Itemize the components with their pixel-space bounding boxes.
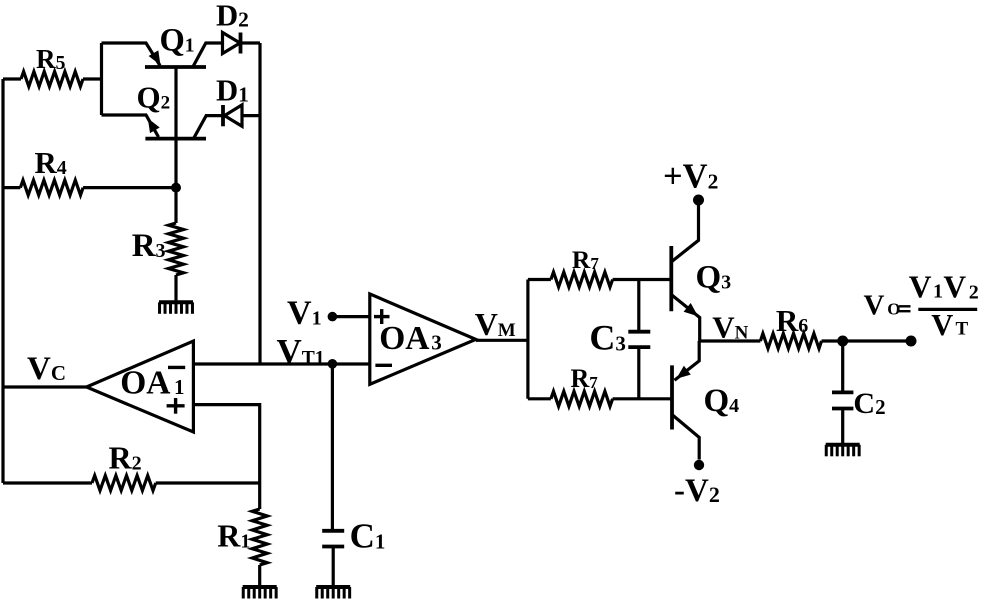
op-amp OA1 plus sign [167, 404, 185, 407]
transistor Q3 base bar [669, 246, 673, 311]
resistor R2 [3, 481, 92, 484]
transistor Q3 emitter arrow [684, 303, 698, 316]
ground below R1 [243, 585, 277, 589]
resistor R5 [3, 77, 21, 80]
ground below C2 [826, 443, 860, 447]
transistor Q2 base bar [145, 137, 206, 141]
svg-text:T: T [956, 319, 969, 340]
transistor Q4 emitter [675, 341, 700, 380]
wire C2 to ground [841, 409, 844, 445]
capacitor C3 [628, 330, 650, 334]
wire OA1 plus input [193, 405, 259, 483]
transistor Q2 collector [194, 116, 224, 139]
diode D1 triangle [225, 105, 243, 126]
wire C1 to ground [332, 547, 335, 588]
wire V1 to OA3 [332, 315, 369, 318]
wire D2 to rail [241, 41, 261, 44]
transistor Q1 collector [193, 43, 223, 67]
capacitor C1 [322, 529, 344, 533]
wire C3 bottom stub [637, 347, 640, 399]
svg-text:2: 2 [969, 281, 979, 303]
wire base bus [174, 67, 177, 188]
diode D2 cathode bar [239, 33, 243, 54]
op-amp OA3 minus sign [375, 364, 392, 367]
svg-text:1: 1 [174, 375, 185, 399]
svg-text:1: 1 [933, 280, 943, 302]
resistor R6 [760, 334, 821, 349]
resistor R1 [258, 483, 261, 509]
svg-text:O: O [887, 300, 900, 319]
ground below C1 [316, 585, 350, 589]
terminal V1 [328, 312, 338, 322]
svg-text:OA: OA [379, 320, 429, 357]
wire D1 to rail [242, 114, 260, 117]
op-amp OA3 [370, 294, 476, 384]
wire C2 stub [841, 341, 844, 392]
svg-text:V: V [864, 290, 885, 322]
node R4-R3 junction [171, 183, 181, 193]
resistor R4 [3, 186, 20, 189]
wire left rail [1, 79, 4, 483]
wire splitter bracket [526, 280, 529, 399]
wire VM [476, 339, 528, 342]
op-amp OA1 minus sign [168, 366, 185, 369]
terminal -V2 [694, 460, 704, 470]
svg-text:V: V [931, 308, 953, 342]
wire VT1 to C1 [331, 364, 334, 531]
node C2 junction [837, 336, 848, 347]
wire right rail [258, 43, 261, 364]
transistor Q1 emitter [102, 43, 161, 66]
terminal +V2 [693, 195, 704, 206]
wire C3 top stub [637, 280, 640, 332]
wire Q1-Q2 emitter bus [100, 43, 103, 115]
svg-text:V: V [943, 270, 966, 305]
resistor R7 top [528, 278, 551, 281]
node VT1 [328, 359, 338, 369]
diode D2 triangle [223, 33, 241, 54]
transistor Q3 collector [672, 205, 699, 262]
op-amp OA3 plus sign [374, 315, 390, 318]
resistor R3 [174, 188, 177, 223]
transistor Q3 emitter [672, 295, 700, 341]
ground below R3 [159, 300, 193, 304]
capacitor C2 [832, 390, 853, 394]
terminal VO [906, 336, 917, 347]
transistor Q4 base bar [670, 365, 674, 429]
transistor Q4 emitter arrow [676, 366, 691, 379]
svg-text:V: V [909, 270, 932, 305]
diode D1 cathode bar [221, 105, 225, 126]
svg-text:3: 3 [431, 330, 442, 354]
op-amp OA1 [87, 341, 194, 432]
resistor R7 bottom [528, 397, 551, 400]
wire VN [700, 339, 761, 342]
transistor Q1 emitter arrow [149, 50, 161, 65]
wire VC [3, 385, 87, 388]
wire output [843, 339, 911, 342]
transistor Q4 collector [673, 415, 700, 460]
transistor Q2 emitter [102, 115, 159, 137]
svg-text:OA: OA [120, 365, 170, 402]
transistor Q2 emitter arrow [148, 118, 160, 133]
transistor Q1 base bar [145, 65, 206, 69]
wire OA1 minus to VT1 [193, 362, 369, 365]
